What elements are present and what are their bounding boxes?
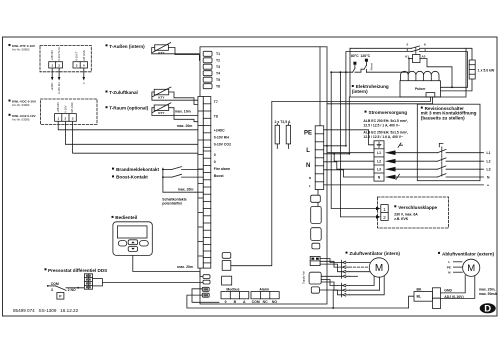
labels T1-T6 bbox=[216, 52, 220, 88]
svg-text:M: M bbox=[375, 263, 383, 274]
common wire of contacts bbox=[162, 168, 203, 192]
KTY sensor B1 (T-Aussen) bbox=[153, 43, 171, 55]
supply fan motor M1 bbox=[369, 258, 388, 277]
KWL-PTF output arrows bbox=[51, 68, 85, 81]
label 1 x 5.0 kW bbox=[478, 69, 495, 73]
revision switch L2 pole bbox=[394, 158, 484, 161]
svg-text:12.5 / 12.5 / 1 A, 400 V~: 12.5 / 12.5 / 1 A, 400 V~ bbox=[363, 124, 400, 128]
svg-text:4: 4 bbox=[83, 64, 85, 68]
wire DDS to board bbox=[102, 281, 203, 283]
svg-text:Pressostat différentiel DDS: Pressostat différentiel DDS bbox=[48, 268, 107, 273]
svg-text:2 NO: 2 NO bbox=[68, 288, 76, 292]
contactor coil K1 bbox=[405, 55, 426, 63]
label Supply fan (rotated) bbox=[302, 270, 306, 284]
Modbus labels bbox=[225, 287, 246, 304]
VOC/CO2 terminal block 1-2-3 bbox=[55, 114, 77, 122]
board aux socket b6 bbox=[309, 272, 321, 284]
revision switch L3 pole bbox=[394, 166, 484, 169]
main controller board outline bbox=[200, 47, 327, 304]
svg-text:0-10V CO2: 0-10V CO2 bbox=[214, 143, 231, 147]
wire VOC/CO2 +UB to +24DC terminal bbox=[58, 121, 203, 130]
svg-text:3: 3 bbox=[51, 288, 53, 292]
cable length label max 20m (Bedienteil) bbox=[177, 265, 193, 269]
fire alarm contact switch bbox=[163, 167, 203, 170]
svg-text:+: + bbox=[487, 184, 489, 188]
wire strip to socket b1 bbox=[317, 190, 319, 207]
wire socket4 loop to extern fan cable bbox=[187, 295, 414, 308]
KTY sensor B3 (T-Raum) bbox=[152, 103, 171, 115]
sensor module KWL-VOC label bbox=[9, 100, 37, 108]
exhaust fan terminal labels L PE N bbox=[447, 260, 463, 274]
mains terminal block bbox=[374, 141, 384, 181]
wire ADJ to motor bbox=[441, 276, 475, 298]
svg-text:Art.-Nr. 03094: Art.-Nr. 03094 bbox=[12, 103, 30, 107]
svg-text:80°C 120°C: 80°C 120°C bbox=[351, 54, 371, 58]
control cable BK/BL bbox=[414, 288, 433, 302]
label 2 x T2,5 A bbox=[275, 120, 291, 124]
wires board to lower plug bbox=[319, 280, 341, 295]
svg-text:Supply fan: Supply fan bbox=[302, 270, 306, 284]
wire heater element to Pulser bbox=[440, 79, 472, 91]
Alarm connector bbox=[251, 292, 279, 299]
board control box U3 bbox=[222, 276, 232, 285]
wire to mains N terminal bbox=[324, 170, 374, 177]
svg-text:3: 3 bbox=[72, 117, 74, 121]
svg-text:Pulser: Pulser bbox=[415, 87, 426, 91]
contactor contact 5-6 blade bbox=[412, 46, 420, 48]
wire PE to mains earth terminal bbox=[324, 130, 374, 145]
svg-text:T2: T2 bbox=[216, 59, 220, 63]
svg-text:Modbus: Modbus bbox=[226, 287, 239, 291]
svg-text:(bauseits zu stellen): (bauseits zu stellen) bbox=[421, 115, 465, 120]
svg-text:A2: A2 bbox=[422, 55, 426, 59]
Revisionsschalter enclosure bbox=[417, 104, 480, 181]
wire mains feed from board top bbox=[319, 47, 321, 126]
label Stromversorgung bbox=[365, 110, 408, 115]
svg-text:L1: L1 bbox=[487, 151, 491, 155]
wire fan bus riser bbox=[332, 290, 334, 309]
svg-text:+24DC: +24DC bbox=[50, 82, 54, 90]
wire KTY B3 to T8 bbox=[152, 108, 203, 116]
svg-text:Zuluftventilator (intern): Zuluftventilator (intern) bbox=[349, 251, 400, 256]
Verschlussklappe terminals 1-2 bbox=[381, 205, 388, 221]
svg-text:0: 0 bbox=[214, 153, 216, 157]
svg-text:+24DC: +24DC bbox=[214, 128, 225, 132]
svg-text:max. 10m: max. 10m bbox=[175, 110, 191, 114]
board aux socket b2 bbox=[311, 207, 322, 224]
heating element resistor 5kW bbox=[469, 60, 475, 79]
supply fan plug upper bbox=[342, 260, 350, 278]
heater element symbol (coil humps) bbox=[401, 71, 440, 80]
sensor module KWL-PTF dashed enclosure bbox=[40, 46, 91, 72]
VOC/CO2 pin labels (rotated) bbox=[56, 102, 74, 113]
svg-text:T4: T4 bbox=[216, 72, 220, 76]
svg-text:D: D bbox=[484, 304, 491, 315]
terminal strip labels bbox=[214, 100, 231, 178]
power strip labels bbox=[304, 131, 312, 188]
cable length label max 20m (contacts) bbox=[178, 187, 194, 191]
svg-text:Reset: Reset bbox=[369, 63, 373, 71]
switch gang link (dashed) bbox=[441, 147, 443, 176]
svg-text:6: 6 bbox=[424, 42, 426, 46]
svg-text:T-Zuluftkanal: T-Zuluftkanal bbox=[109, 90, 138, 95]
wires board to supply fan plug bbox=[320, 259, 341, 277]
svg-text:T7: T7 bbox=[214, 100, 218, 104]
board aux socket b4 bbox=[312, 243, 320, 249]
label Revisionsschalter bbox=[421, 106, 477, 120]
wire Bedienteil to board bbox=[133, 255, 203, 276]
KWL-PTF arrow target labels (rotated) bbox=[50, 82, 86, 94]
svg-text:1: 1 bbox=[57, 117, 59, 121]
svg-text:L: L bbox=[448, 260, 450, 264]
svg-text:1: 1 bbox=[51, 64, 53, 68]
board relay box K1 small bbox=[222, 253, 231, 259]
svg-text:1 x 5.0 kW: 1 x 5.0 kW bbox=[478, 69, 495, 73]
wire socket3 loop to fan bus bbox=[192, 289, 219, 303]
board bottom small sockets bbox=[202, 275, 210, 298]
svg-text:GND: GND bbox=[444, 288, 452, 292]
wire VOC/CO2 GND to 0 terminal bbox=[73, 121, 204, 153]
svg-text:+UB 24V: +UB 24V bbox=[56, 102, 60, 113]
switch actuator mark bbox=[439, 143, 443, 146]
svg-text:COM: COM bbox=[51, 282, 59, 286]
revision D badge bbox=[480, 303, 496, 314]
DDS connector block bbox=[84, 274, 102, 289]
KTY sensor B2 (T-Zuluftkanal) bbox=[152, 87, 171, 99]
svg-text:T8: T8 bbox=[214, 115, 218, 119]
svg-text:4: 4 bbox=[424, 48, 426, 52]
wire heater box tap to L2 row bbox=[348, 97, 350, 155]
svg-text:ALB EC 200 EH: 5x1.5 mm²,: ALB EC 200 EH: 5x1.5 mm², bbox=[363, 119, 408, 123]
Pulser box bbox=[400, 81, 440, 97]
control panel (Bedienteil) bbox=[113, 222, 152, 256]
wire L to mains L1 terminal bbox=[324, 145, 346, 147]
Modbus connector bbox=[221, 292, 249, 299]
label Bedienteil bbox=[112, 215, 138, 220]
svg-text:M: M bbox=[467, 263, 475, 274]
svg-text:Fire alarm: Fire alarm bbox=[214, 167, 230, 171]
fuse F2 bbox=[286, 124, 290, 149]
svg-text:0-10V RH: 0-10V RH bbox=[214, 135, 230, 139]
svg-text:Boost-Kontakt: Boost-Kontakt bbox=[116, 175, 148, 180]
svg-text:T1: T1 bbox=[216, 52, 220, 56]
wire VOC/CO2 signal to 0-10V CO2 terminal bbox=[65, 121, 203, 144]
svg-text:L3: L3 bbox=[377, 167, 381, 171]
board control box U2 bbox=[222, 261, 231, 271]
label T-Zuluftkanal bbox=[106, 90, 138, 95]
wires supply fan plug to motor bbox=[349, 263, 369, 277]
svg-text:T3: T3 bbox=[216, 65, 220, 69]
label Schaltkontakte potentialfrei bbox=[162, 198, 187, 206]
KWL-PTF pin labels (rotated) bbox=[50, 46, 86, 61]
svg-text:N: N bbox=[306, 163, 310, 169]
terminals T1-T6 bbox=[203, 51, 212, 88]
svg-text:BK: BK bbox=[417, 288, 422, 292]
label Verschlussklappe bbox=[394, 205, 437, 221]
exhaust fan motor M2 bbox=[463, 259, 480, 276]
edge connector column (left) bbox=[198, 97, 203, 269]
Pulser control terminal bbox=[426, 93, 435, 97]
KWL-PTF terminal block 1-2 bbox=[49, 62, 63, 68]
DDS pressure switch bbox=[47, 282, 85, 299]
label Zuluftventilator (intern) bbox=[346, 251, 401, 256]
wire KTY B2 return bbox=[169, 92, 203, 105]
cable length label max 20m (sensor bundle) bbox=[177, 124, 193, 128]
svg-text:0-10V RH: 0-10V RH bbox=[57, 82, 61, 94]
drawing border frame bbox=[3, 37, 498, 316]
wire KTY B1 to T2 bbox=[168, 48, 203, 61]
svg-text:max. 20m: max. 20m bbox=[178, 187, 194, 191]
svg-text:Boost: Boost bbox=[214, 174, 225, 178]
svg-text:UB GND: UB GND bbox=[70, 102, 74, 112]
svg-text:L: L bbox=[309, 184, 311, 188]
power terminal strip PE/L/N bbox=[315, 126, 324, 190]
svg-text:0-10V T: 0-10V T bbox=[75, 51, 79, 61]
svg-text:KTY: KTY bbox=[158, 95, 165, 99]
wire heater tap to Verschlussklappe terminal 1 bbox=[330, 71, 376, 208]
contact link (dashed) bbox=[415, 47, 417, 54]
svg-text:Abluftventilator (extern): Abluftventilator (extern) bbox=[442, 251, 495, 256]
svg-text:Brandmeldekontakt: Brandmeldekontakt bbox=[116, 167, 159, 172]
svg-text:Stromversorgung: Stromversorgung bbox=[369, 110, 408, 115]
svg-text:NO: NO bbox=[272, 300, 277, 304]
label T-Aussen (intern) bbox=[106, 44, 146, 49]
cable plug housing bbox=[433, 288, 441, 309]
svg-text:0: 0 bbox=[214, 160, 216, 164]
supply spec text ALB EC 200 bbox=[363, 119, 408, 139]
svg-text:Art.-Nr. 03095: Art.-Nr. 03095 bbox=[12, 117, 30, 121]
svg-text:ADJ (0-10V): ADJ (0-10V) bbox=[444, 295, 463, 299]
svg-text:+UB 24V: +UB 24V bbox=[50, 50, 54, 61]
svg-text:max. 20m: max. 20m bbox=[177, 265, 193, 269]
label Brandmeldekontakt bbox=[112, 167, 159, 172]
svg-text:Art.-Nr. 00992: Art.-Nr. 00992 bbox=[12, 48, 30, 52]
svg-text:5: 5 bbox=[407, 42, 409, 46]
thermal cutout F4 120C (reset) bbox=[364, 59, 368, 72]
wire GND to motor bbox=[441, 275, 466, 293]
svg-text:L1: L1 bbox=[377, 151, 381, 155]
cable arrows into mains block bbox=[385, 150, 396, 179]
svg-text:12.5 / 12.5 / 1.6 A, 400 V~: 12.5 / 12.5 / 1.6 A, 400 V~ bbox=[363, 135, 403, 139]
svg-text:PE: PE bbox=[304, 131, 312, 137]
svg-text:ALB EC 250 EH: 5x1.5 mm²,: ALB EC 250 EH: 5x1.5 mm², bbox=[363, 131, 408, 135]
revision switch N pole bbox=[394, 174, 484, 177]
svg-text:potentialfrei: potentialfrei bbox=[162, 201, 182, 205]
label Pressostat differentiel DDS bbox=[45, 268, 108, 273]
svg-text:KTY: KTY bbox=[158, 51, 165, 55]
label Abluftventilator (extern) bbox=[438, 251, 495, 256]
earth symbol in mains block bbox=[377, 142, 381, 147]
wire N to mains L3 terminal bbox=[324, 162, 374, 169]
svg-text:L2: L2 bbox=[487, 160, 491, 164]
svg-text:KTY: KTY bbox=[158, 111, 165, 115]
revision switch L1 pole bbox=[394, 149, 484, 152]
wire KTY B2 to T7 bbox=[152, 92, 203, 100]
contactor feed wire 3-4 bbox=[346, 52, 468, 88]
label Reset (rotated) bbox=[369, 63, 373, 71]
svg-text:Verschlussklappe: Verschlussklappe bbox=[398, 205, 437, 210]
Alarm labels bbox=[252, 287, 278, 304]
svg-text:L2: L2 bbox=[377, 159, 381, 163]
wire coil A1 feed bbox=[409, 58, 413, 60]
fuse F1 bbox=[275, 124, 279, 149]
sensor module KWL-PTF label bbox=[9, 44, 36, 52]
boost contact switch bbox=[163, 174, 203, 177]
title block text bbox=[13, 308, 79, 313]
sensor module KWL-CO2 label bbox=[9, 114, 37, 122]
contactor contact 3-4 blade bbox=[412, 49, 420, 51]
svg-text:L: L bbox=[306, 148, 310, 154]
svg-text:2: 2 bbox=[58, 64, 60, 68]
svg-text:Bedienteil: Bedienteil bbox=[115, 215, 137, 220]
label 80C 120C bbox=[351, 54, 371, 58]
svg-text:(intern): (intern) bbox=[352, 89, 368, 94]
wire Pulser sense line bbox=[327, 97, 433, 104]
svg-text:T5: T5 bbox=[216, 78, 220, 82]
svg-text:L3: L3 bbox=[487, 168, 491, 172]
labels max 20m max 50mA bbox=[479, 288, 498, 296]
wires motor to lower plug bbox=[349, 276, 384, 295]
wire heater control (Pulser to board) bbox=[231, 97, 431, 266]
terminal strip (right column) bbox=[203, 97, 211, 269]
svg-text:max. 20m,: max. 20m, bbox=[479, 288, 496, 292]
svg-text:BL: BL bbox=[417, 295, 422, 299]
cable tick marks bbox=[396, 143, 403, 180]
svg-text:2: 2 bbox=[65, 117, 67, 121]
supply fan plug lower bbox=[342, 283, 350, 297]
labels GND / ADJ bbox=[444, 288, 463, 299]
svg-text:0-10V: 0-10V bbox=[63, 105, 67, 112]
svg-text:A1: A1 bbox=[405, 55, 409, 59]
board aux socket b3 bbox=[311, 228, 322, 241]
wire heater tap to Verschlussklappe terminal 2 bbox=[340, 71, 377, 217]
label Boost-Kontakt bbox=[112, 175, 148, 180]
svg-text:z.B. EVK: z.B. EVK bbox=[394, 217, 408, 221]
cable length label max 10m (T-Raum) bbox=[175, 110, 191, 114]
board aux socket b7 bbox=[311, 287, 319, 293]
supply fan connector on board bbox=[310, 256, 320, 265]
wire PE continuation to right edge bbox=[324, 184, 484, 186]
wire riser to thermostat chain / L row bbox=[345, 52, 347, 147]
board aux socket b1 bbox=[311, 195, 321, 202]
wire to mains L2 terminal bbox=[324, 153, 350, 155]
svg-text:max. 20m: max. 20m bbox=[177, 124, 193, 128]
labels L1 L2 L3 N right edge bbox=[487, 151, 491, 187]
svg-text:UB GND: UB GND bbox=[82, 50, 86, 60]
sensor module VOC/CO2 dashed enclosure bbox=[41, 99, 98, 125]
svg-text:Alarm: Alarm bbox=[259, 287, 269, 291]
KWL-PTF terminal block 3-4 bbox=[73, 62, 88, 68]
contact number labels bbox=[407, 42, 427, 51]
svg-text:T-Raum (optional): T-Raum (optional) bbox=[109, 106, 149, 111]
svg-text:max. 50mA: max. 50mA bbox=[479, 292, 498, 296]
svg-text:PE: PE bbox=[447, 266, 451, 270]
wire KTY B1 to T1 bbox=[152, 48, 204, 54]
svg-text:COM: COM bbox=[252, 300, 260, 304]
label T-Raum (optional) bbox=[106, 106, 149, 111]
thermal cutout F3 80C bbox=[353, 62, 357, 72]
svg-text:0-10V % r.h.: 0-10V % r.h. bbox=[57, 46, 61, 61]
Verschlussklappe dashed enclosure bbox=[378, 197, 449, 228]
svg-text:85499 074 SS-1309 16.12.22: 85499 074 SS-1309 16.12.22 bbox=[13, 308, 79, 313]
svg-text:3: 3 bbox=[407, 48, 409, 52]
arrows into Verschlussklappe bbox=[376, 207, 381, 219]
svg-text:3: 3 bbox=[76, 64, 78, 68]
svg-text:NC: NC bbox=[263, 300, 268, 304]
label Elektroheizung (intern) bbox=[352, 84, 389, 94]
contactor feed wire 5-6 bbox=[350, 48, 472, 60]
wire thermostat chain bbox=[331, 59, 409, 73]
heater section enclosure bbox=[350, 48, 466, 97]
svg-text:T-Außen (intern): T-Außen (intern) bbox=[109, 44, 145, 49]
wire coil A2 out bbox=[420, 59, 452, 88]
wire KTY B3 return bbox=[169, 108, 203, 122]
svg-text:0: 0 bbox=[225, 300, 227, 304]
svg-text:T6: T6 bbox=[216, 85, 220, 89]
